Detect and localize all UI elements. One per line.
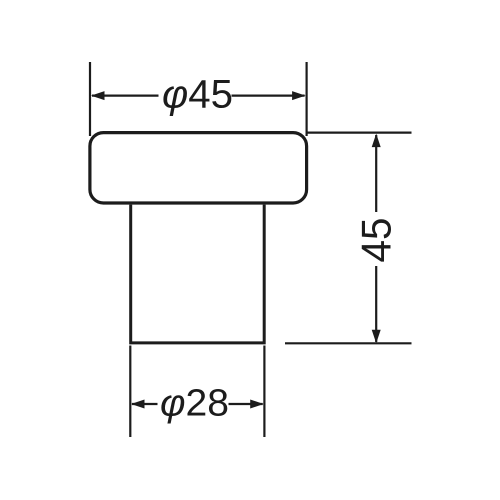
arrowhead φ28 left xyxy=(131,400,145,409)
extension line top-right (φ45) xyxy=(306,62,308,136)
arrowhead φ28 right xyxy=(250,400,264,409)
extension line right-bottom (45) xyxy=(285,342,412,344)
arrowhead φ45 right xyxy=(292,91,306,100)
dimension line φ45 left segment xyxy=(92,94,159,96)
dimension line φ28 left segment xyxy=(132,403,158,405)
extension line bottom-left (φ28) xyxy=(129,346,131,438)
cylinder body outline xyxy=(131,205,265,343)
svg-text:φ28: φ28 xyxy=(160,383,229,425)
extension line top-left (φ45) xyxy=(89,62,91,136)
dimension line 45 lower segment xyxy=(375,266,377,342)
arrowhead 45 up xyxy=(372,134,381,148)
dimension line φ45 right segment xyxy=(232,94,305,96)
svg-text:φ45: φ45 xyxy=(162,73,233,117)
dimension line φ28 right segment xyxy=(229,403,263,405)
extension line bottom-right (φ28) xyxy=(263,346,265,438)
dimension line 45 upper segment xyxy=(375,135,377,212)
svg-text:45: 45 xyxy=(353,218,400,263)
arrowhead φ45 left xyxy=(91,91,105,100)
cap outline (rounded top flange of knob) xyxy=(90,133,307,203)
extension line right-top (45) xyxy=(308,132,412,134)
arrowhead 45 down xyxy=(372,330,381,344)
